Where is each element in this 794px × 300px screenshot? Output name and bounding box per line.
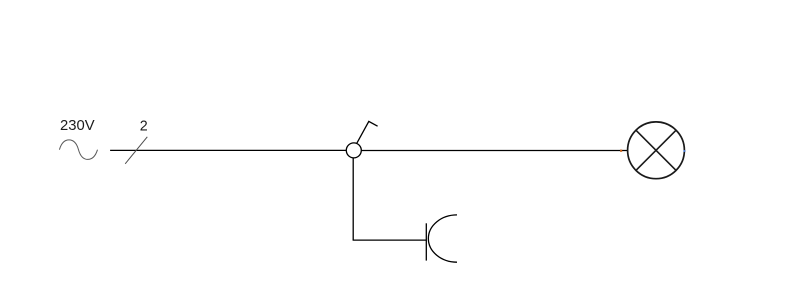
svg-text:2: 2 — [140, 119, 148, 135]
svg-text:230V: 230V — [60, 118, 95, 134]
